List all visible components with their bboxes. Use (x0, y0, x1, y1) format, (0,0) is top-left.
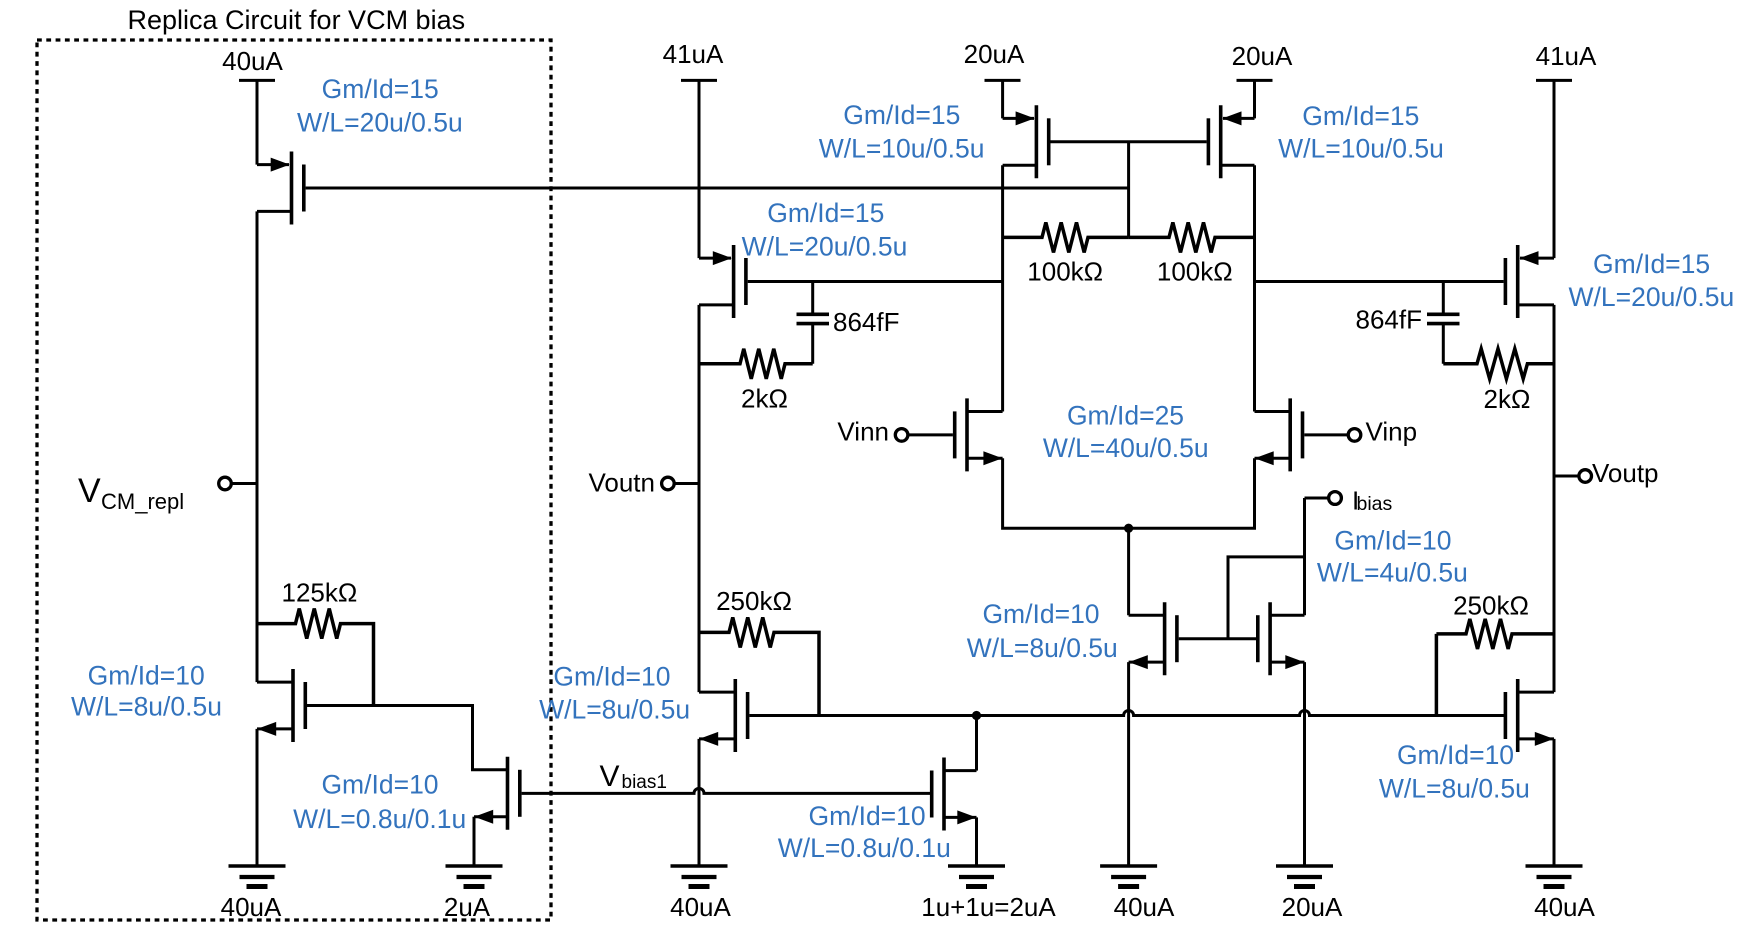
wire M7 source to ground (975, 817, 978, 866)
svg-text:Gm/Id=15: Gm/Id=15 (767, 198, 884, 228)
svg-text:W/L=20u/0.5u: W/L=20u/0.5u (1569, 282, 1735, 312)
svg-text:W/L=20u/0.5u: W/L=20u/0.5u (297, 107, 463, 137)
node Ibias terminal (1305, 492, 1342, 505)
resistor 2k left (699, 349, 813, 379)
node Vinp terminal and gate wire (1304, 429, 1360, 442)
net gate rail with hops (749, 711, 1506, 716)
wire M7 drain up to gate rail (975, 716, 978, 771)
nmos M6L tail mirror (Gm/Id=10 W/L=8u/0.5u) (1129, 602, 1177, 675)
ground replica left (229, 866, 286, 887)
nmos M3L second stage left (Gm/Id=10 W/L=8u/0.5u) (699, 679, 748, 752)
svg-text:2kΩ: 2kΩ (1484, 384, 1531, 414)
pmos M4R load right (Gm/Id=15 W/L=10u/0.5u) (1208, 105, 1254, 178)
wire M4L M4R gates tied, down to resistor mid node (1051, 142, 1207, 238)
nmos M6R bias diode (Gm/Id=10 W/L=4u/0.5u) (1258, 602, 1305, 675)
resistor 100k left (1003, 222, 1129, 252)
svg-text:Gm/Id=10: Gm/Id=10 (809, 801, 926, 831)
svg-text:40uA: 40uA (221, 892, 282, 922)
wire M2 gate to M3 drain (307, 706, 508, 770)
svg-text:125kΩ: 125kΩ (281, 578, 357, 608)
pmos M4L load left (Gm/Id=15 W/L=10u/0.5u) (1003, 105, 1049, 178)
svg-text:Vinn: Vinn (837, 417, 889, 447)
resistor 250k left (699, 617, 819, 715)
svg-text:V: V (600, 760, 620, 793)
pmos M1 replica (Gm/Id=15 W/L=20u/0.5u) (257, 152, 304, 225)
wire M1 gate to top pmos gates node (306, 187, 1129, 190)
node VCM_repl terminal (219, 477, 257, 490)
svg-text:41uA: 41uA (663, 39, 724, 69)
ground right main 40uA (1526, 866, 1583, 887)
wire M4R drain down to input pair drain right (1253, 165, 1256, 411)
replica box dashed border (37, 40, 551, 920)
ground M7 2uA (948, 866, 1005, 887)
svg-text:Gm/Id=10: Gm/Id=10 (553, 662, 670, 692)
svg-text:41uA: 41uA (1536, 41, 1597, 71)
nmos M2 replica (Gm/Id=10 W/L=8u/0.5u) (257, 669, 305, 742)
ground left main 40uA (671, 866, 728, 887)
svg-text:W/L=40u/0.5u: W/L=40u/0.5u (1043, 433, 1209, 463)
wire M3 source to ground (473, 817, 476, 866)
svg-text:W/L=8u/0.5u: W/L=8u/0.5u (1379, 773, 1530, 803)
current source 40uA replica top (239, 80, 275, 164)
wire M3L source to ground (698, 739, 701, 866)
wire tail node down to M6L drain (1127, 528, 1130, 615)
svg-text:W/L=0.8u/0.1u: W/L=0.8u/0.1u (293, 804, 466, 834)
svg-text:2kΩ: 2kΩ (741, 384, 788, 414)
svg-text:Voutn: Voutn (588, 468, 655, 498)
junction dot M7 drain on rail (972, 711, 981, 720)
svg-text:100kΩ: 100kΩ (1157, 257, 1233, 287)
svg-text:Voutp: Voutp (1592, 458, 1659, 488)
nmos M5L input left (Gm/Id=25 W/L=40u/0.5u) (955, 398, 1003, 471)
wire mirror gates link to Ibias node (1179, 557, 1305, 639)
node Voutn terminal (662, 477, 699, 490)
resistor 2k right (1443, 349, 1554, 379)
svg-text:Gm/Id=15: Gm/Id=15 (843, 100, 960, 130)
svg-text:W/L=10u/0.5u: W/L=10u/0.5u (1278, 133, 1444, 163)
wire M3R source to ground (1553, 739, 1556, 866)
svg-text:Gm/Id=15: Gm/Id=15 (322, 74, 439, 104)
svg-text:Vinp: Vinp (1366, 417, 1418, 447)
svg-text:100kΩ: 100kΩ (1027, 257, 1103, 287)
wire M2 source to ground (256, 729, 259, 866)
nmos M7 bias helper (Gm/Id=10 W/L=0.8u/0.1u) (932, 758, 977, 831)
svg-text:2uA: 2uA (444, 892, 491, 922)
svg-text:W/L=8u/0.5u: W/L=8u/0.5u (967, 633, 1118, 663)
ground mirror left 40uA (1100, 866, 1157, 887)
svg-text:Gm/Id=25: Gm/Id=25 (1067, 401, 1184, 431)
wire M1 drain down to VCM node and NMOS M2 drain (256, 211, 259, 682)
node Vinn terminal and gate wire (895, 429, 953, 442)
wire tail left (1003, 458, 1255, 528)
svg-text:Gm/Id=10: Gm/Id=10 (321, 770, 438, 800)
svg-text:40uA: 40uA (1114, 892, 1175, 922)
wire M4L drain down to input pair drain left (1001, 165, 1004, 411)
wire M2L drain down Voutn net (698, 305, 701, 692)
svg-text:Gm/Id=10: Gm/Id=10 (1334, 525, 1451, 555)
resistor 125k replica (257, 609, 374, 706)
svg-text:W/L=8u/0.5u: W/L=8u/0.5u (539, 695, 690, 725)
wire M6L source to ground (1127, 662, 1130, 866)
ground replica right 2uA (446, 866, 503, 887)
pmos M2R second stage right (Gm/Id=15 W/L=20u/0.5u) (1505, 245, 1554, 318)
svg-text:Gm/Id=15: Gm/Id=15 (1593, 249, 1710, 279)
svg-text:W/L=10u/0.5u: W/L=10u/0.5u (819, 133, 985, 163)
svg-text:40uA: 40uA (222, 46, 283, 76)
svg-text:CM_repl: CM_repl (101, 489, 184, 514)
svg-text:40uA: 40uA (670, 892, 731, 922)
svg-text:Replica Circuit for VCM bias: Replica Circuit for VCM bias (128, 5, 466, 35)
net Vbias1 wire M3 gate to M7 gate with hop (522, 788, 930, 793)
capacitor C2 864fF right (1427, 282, 1460, 364)
current source 20uA left (985, 80, 1021, 118)
resistor 100k right (1129, 222, 1255, 252)
svg-text:864fF: 864fF (1356, 305, 1423, 335)
current source 41uA right (1536, 80, 1572, 258)
svg-text:V: V (78, 472, 101, 510)
svg-text:Gm/Id=10: Gm/Id=10 (88, 661, 205, 691)
wire M2L gate to first stage output left (748, 280, 1003, 283)
svg-text:bias: bias (1357, 493, 1393, 515)
svg-text:W/L=8u/0.5u: W/L=8u/0.5u (71, 692, 222, 722)
svg-text:864fF: 864fF (833, 307, 900, 337)
nmos M5R input right (Gm/Id=25 W/L=40u/0.5u) (1255, 398, 1303, 471)
svg-text:1u+1u=2uA: 1u+1u=2uA (921, 892, 1056, 922)
wire M2R drain down Voutp net (1553, 305, 1556, 692)
nmos M3R second stage right (Gm/Id=10 W/L=8u/0.5u) (1505, 679, 1554, 752)
svg-text:40uA: 40uA (1534, 892, 1595, 922)
resistor 250k right (1436, 619, 1554, 716)
wire M6R source to ground (1303, 662, 1306, 866)
nmos M3 replica (Gm/Id=10 W/L=0.8u/0.1u) (474, 757, 520, 830)
capacitor C1 864fF left (797, 282, 830, 364)
svg-text:Gm/Id=15: Gm/Id=15 (1302, 101, 1419, 131)
svg-text:W/L=4u/0.5u: W/L=4u/0.5u (1317, 558, 1468, 588)
label Ibias (1352, 486, 1393, 516)
svg-text:bias1: bias1 (622, 772, 667, 793)
svg-text:Gm/Id=10: Gm/Id=10 (982, 599, 1099, 629)
svg-text:20uA: 20uA (964, 39, 1025, 69)
wire Ibias down to M6R drain (1303, 498, 1306, 615)
svg-text:250kΩ: 250kΩ (716, 586, 792, 616)
svg-text:Gm/Id=10: Gm/Id=10 (1397, 740, 1514, 770)
ground mirror right 20uA (1276, 866, 1333, 887)
label VCM_repl (78, 472, 184, 514)
current source 20uA right (1237, 80, 1273, 118)
svg-text:W/L=0.8u/0.1u: W/L=0.8u/0.1u (778, 833, 951, 863)
label Vbias1 (600, 760, 667, 793)
svg-text:20uA: 20uA (1232, 41, 1293, 71)
junction dot tail node (1124, 524, 1133, 533)
wire M2R gate to first stage output right (1255, 280, 1504, 283)
pmos M2L second stage left (Gm/Id=15 W/L=20u/0.5u) (699, 245, 746, 318)
current source 41uA left (681, 80, 717, 258)
svg-text:250kΩ: 250kΩ (1453, 591, 1529, 621)
node Voutp terminal (1554, 470, 1591, 483)
svg-text:W/L=20u/0.5u: W/L=20u/0.5u (742, 232, 908, 262)
svg-text:20uA: 20uA (1282, 892, 1343, 922)
